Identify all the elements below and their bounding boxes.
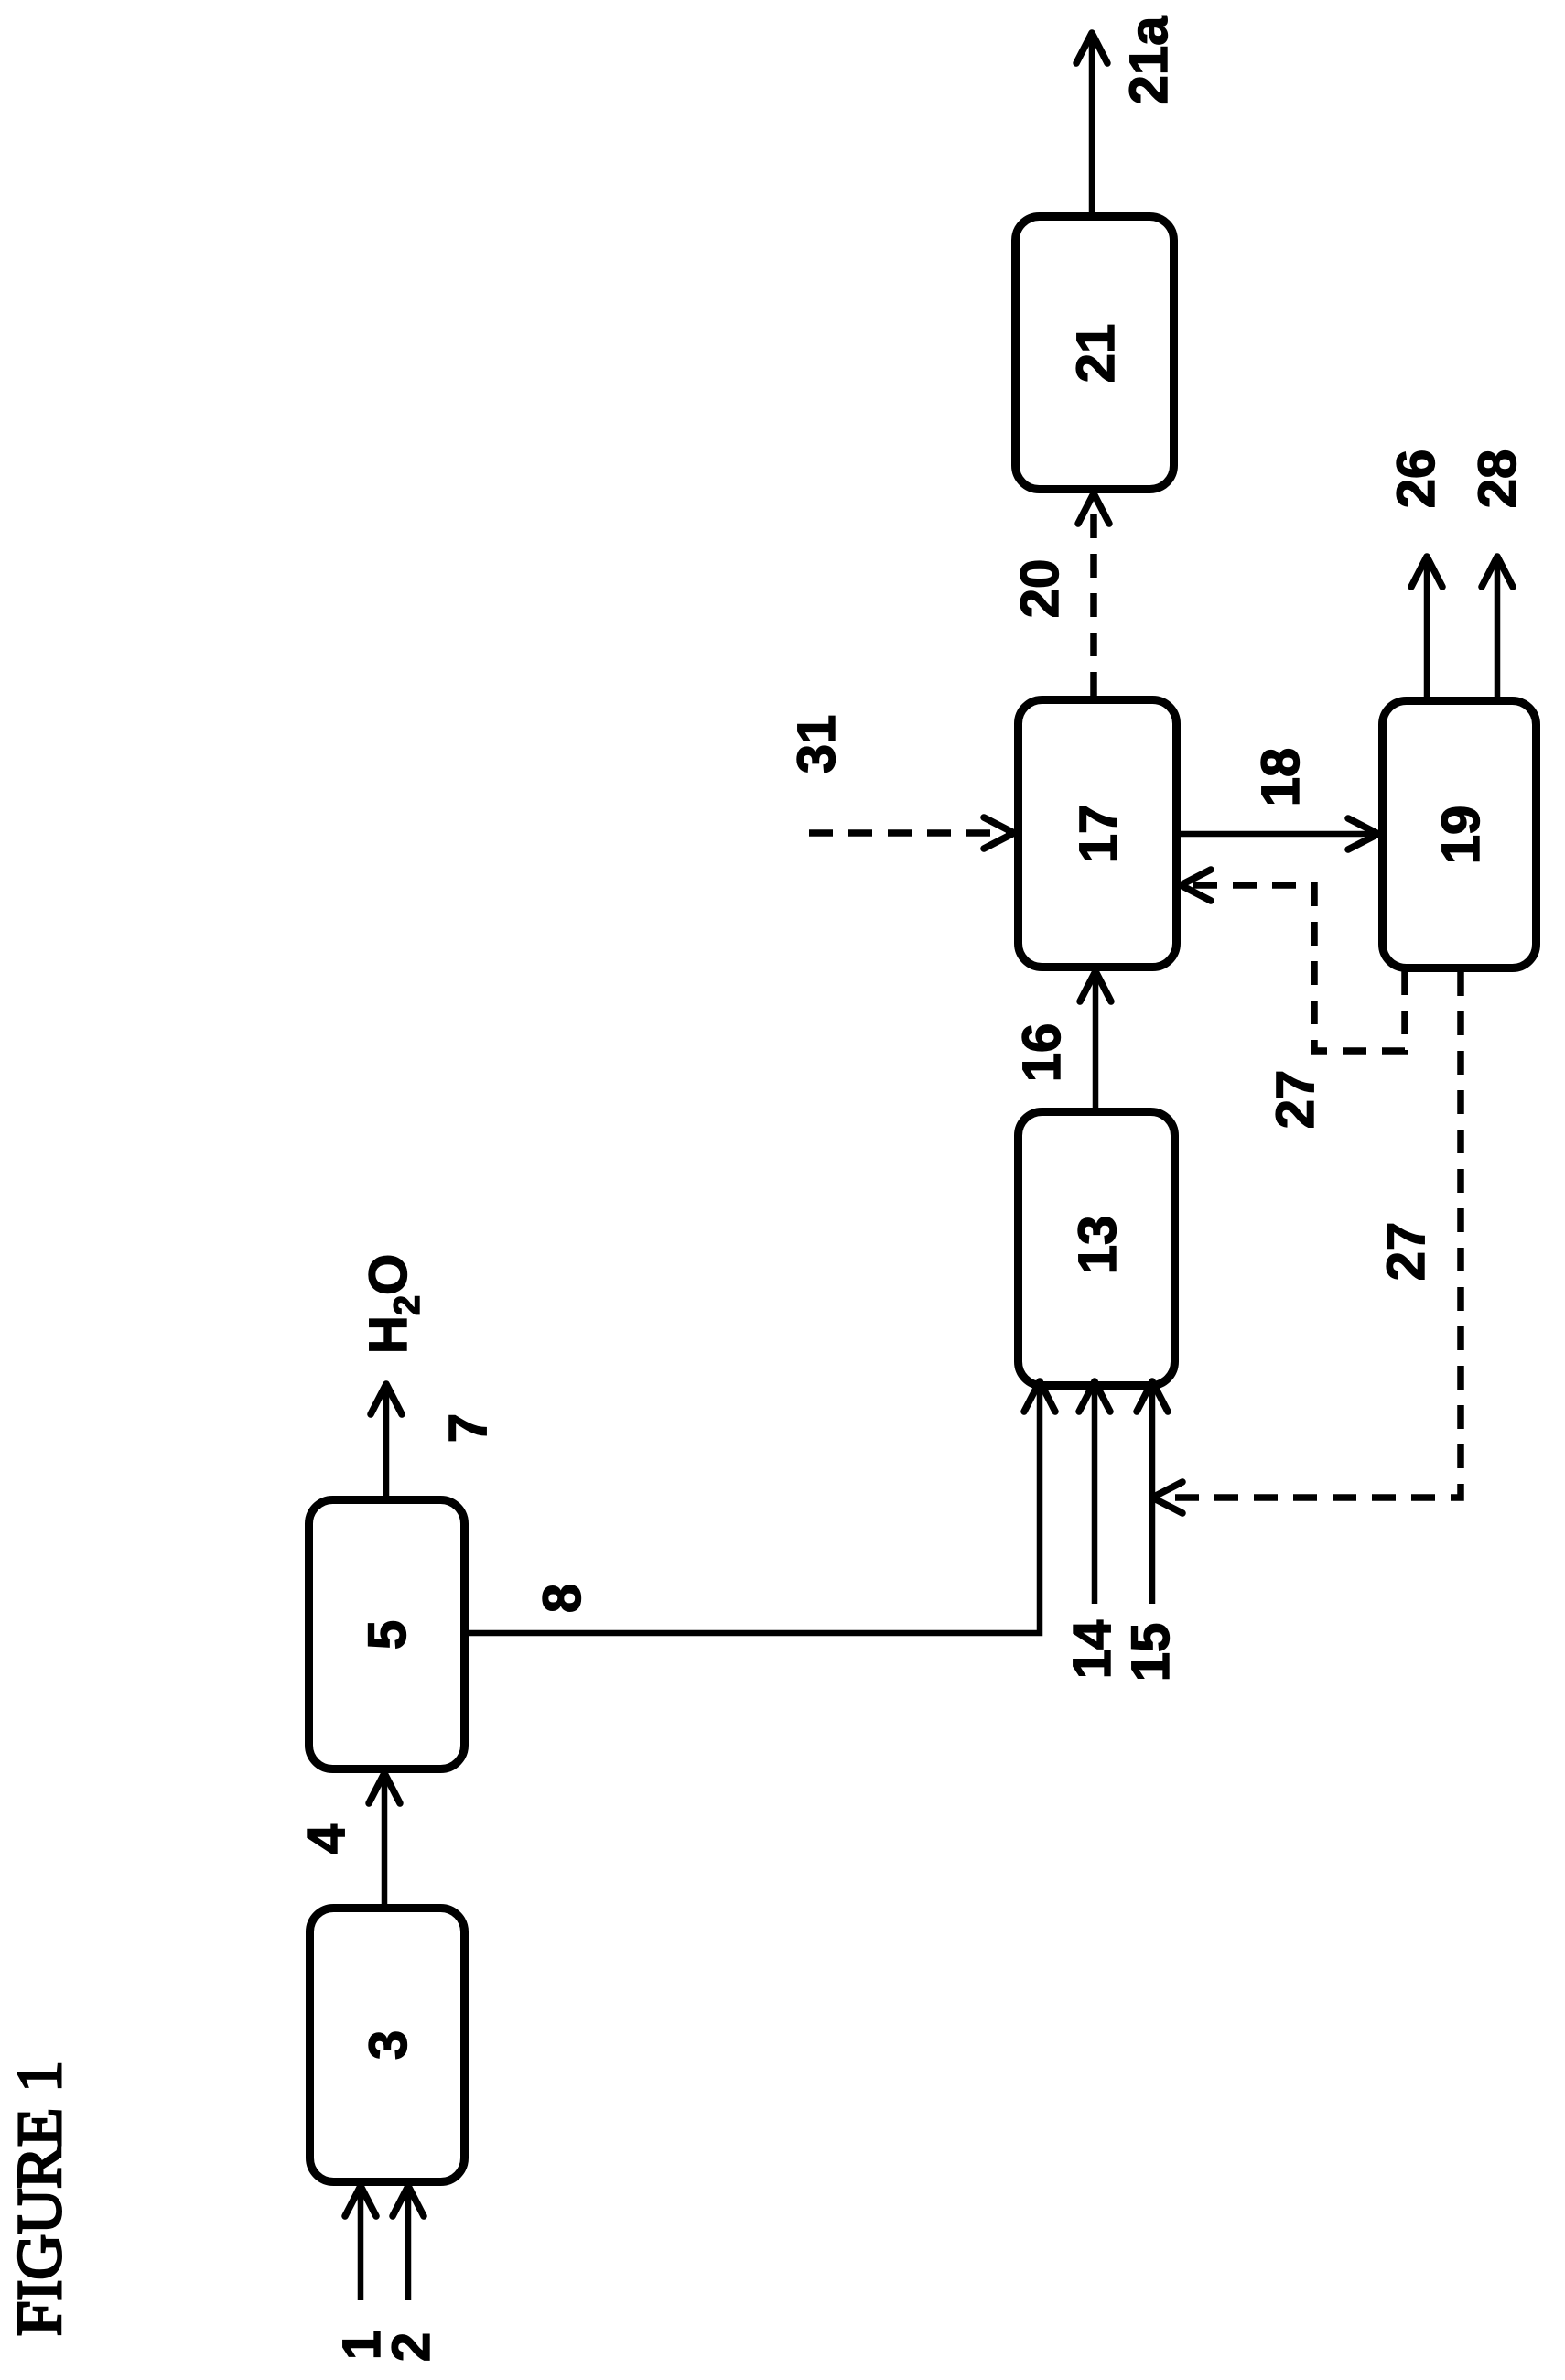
dashed wire stream 27 recycle from box 19 to box 17 — [1188, 885, 1405, 1051]
box 19 — [1383, 701, 1537, 968]
svg-text:26: 26 — [1387, 449, 1446, 509]
svg-text:FIGURE 1: FIGURE 1 — [5, 2061, 74, 2336]
svg-text:8: 8 — [533, 1584, 592, 1613]
svg-text:5: 5 — [358, 1620, 417, 1650]
box 3 — [310, 1909, 465, 2182]
svg-text:28: 28 — [1468, 449, 1527, 509]
wire arrow stream 28 out of box 19 — [1495, 562, 1501, 697]
svg-text:3: 3 — [359, 2030, 418, 2060]
box 5 — [309, 1500, 465, 1769]
svg-text:31: 31 — [787, 715, 847, 774]
svg-text:19: 19 — [1431, 806, 1491, 865]
svg-text:21: 21 — [1066, 324, 1126, 384]
box 13 — [1019, 1112, 1175, 1386]
svg-text:18: 18 — [1251, 748, 1311, 807]
box 17 — [1019, 700, 1177, 968]
svg-text:27: 27 — [1266, 1070, 1325, 1130]
wire arrow stream 2 into box 3 — [405, 2191, 412, 2300]
dashed wire stream 31 into box 17 — [809, 829, 1007, 837]
svg-text:13: 13 — [1068, 1216, 1128, 1275]
wire stream 8 from box 5 to box 13 — [469, 1387, 1040, 1633]
svg-text:7: 7 — [438, 1413, 498, 1443]
svg-text:20: 20 — [1010, 559, 1070, 619]
svg-text:4: 4 — [297, 1824, 356, 1854]
svg-text:21a: 21a — [1119, 16, 1179, 105]
svg-text:15: 15 — [1121, 1623, 1181, 1682]
dashed wire stream 27 recycle from box 19 to stream 15 — [1160, 972, 1461, 1498]
svg-text:16: 16 — [1012, 1023, 1072, 1083]
wire arrow stream 26 out of box 19 — [1424, 562, 1430, 697]
box 21 — [1016, 217, 1174, 490]
svg-text:14: 14 — [1063, 1620, 1122, 1680]
svg-text:17: 17 — [1069, 805, 1128, 864]
wire arrow stream 21a out of box 21 — [1089, 38, 1095, 212]
wire arrow stream 14 into box 13 — [1092, 1387, 1098, 1604]
svg-text:H2O: H2O — [359, 1254, 427, 1354]
wire arrow stream 15 into box 13 — [1149, 1387, 1156, 1604]
wire arrow stream 1 into box 3 — [358, 2191, 364, 2300]
wire arrow stream 7 H2O out of box 5 — [383, 1390, 390, 1496]
wire arrow stream 18 from box 17 to box 19 — [1181, 831, 1373, 838]
wire arrow stream 4 from box 3 to box 5 — [382, 1779, 388, 1904]
svg-text:2: 2 — [382, 2332, 441, 2362]
dashed wire stream 20 from box 17 to box 21 — [1090, 501, 1097, 696]
svg-text:27: 27 — [1376, 1222, 1436, 1282]
wire arrow stream 16 from box 13 to box 17 — [1093, 977, 1099, 1108]
